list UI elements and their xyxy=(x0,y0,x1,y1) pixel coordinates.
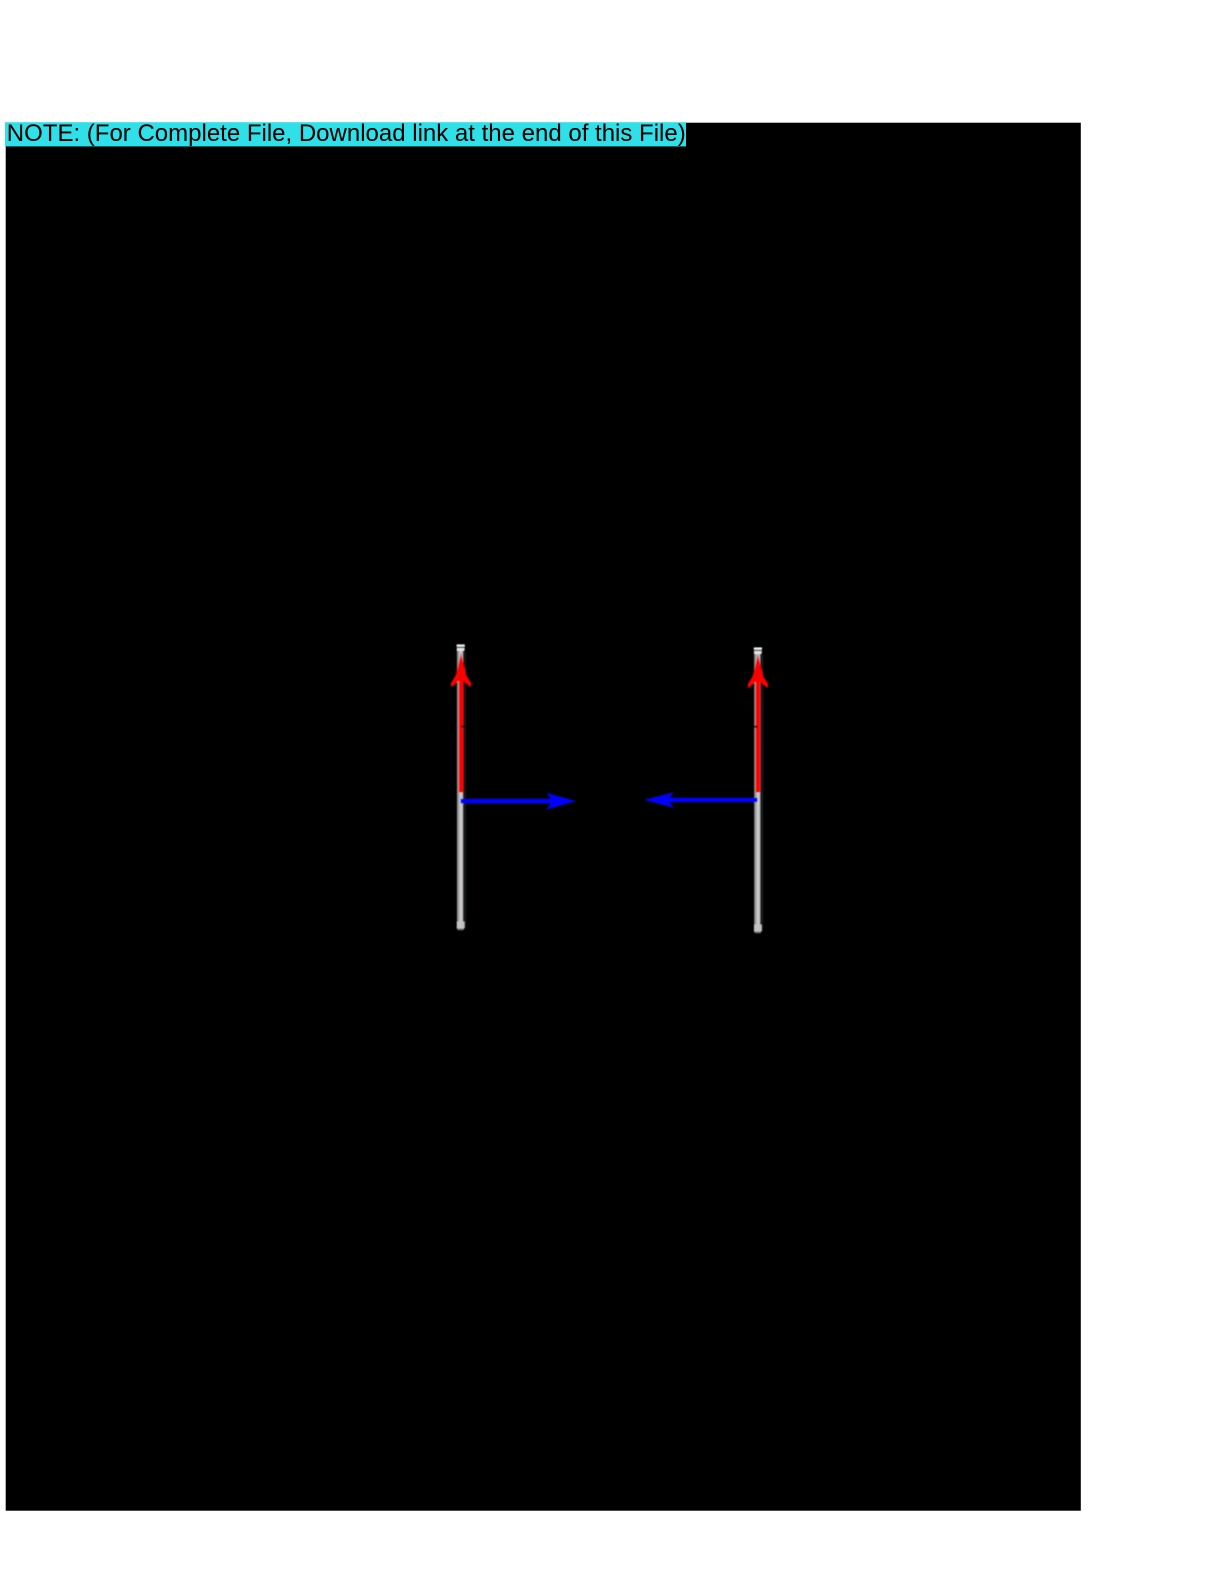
wire 1 top cap xyxy=(457,644,465,646)
tick mark on wire 1 xyxy=(461,726,465,728)
wire 2 shadow xyxy=(762,655,764,931)
note highlight strip xyxy=(5,122,686,146)
wire 2 top cap xyxy=(754,647,762,649)
current arrow I2 (red, up, on right wire) xyxy=(748,654,769,793)
current arrow I1 (red, up, on left wire) xyxy=(451,653,472,793)
wire 1 shadow xyxy=(464,652,466,928)
tick mark on wire 2 xyxy=(754,726,758,728)
wire 1 bottom cap xyxy=(457,922,465,929)
force arrow F2 (blue, leftward from right wire) xyxy=(644,792,757,808)
black screenshot background xyxy=(6,123,1081,1511)
wire 1 (left conductor rod) xyxy=(457,644,466,930)
force arrow F1 (blue, rightward from left wire) xyxy=(461,793,577,810)
wire 2 (right conductor rod) xyxy=(754,647,764,933)
svg-text:NOTE: (For Complete File, Down: NOTE: (For Complete File, Download link … xyxy=(7,120,686,147)
wire 2 bottom cap xyxy=(754,925,762,932)
